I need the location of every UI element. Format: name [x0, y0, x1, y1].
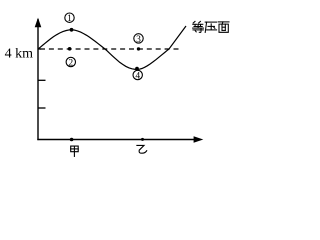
char ya	[205, 21, 216, 23]
circled 4	[133, 70, 142, 81]
circled 3	[134, 34, 143, 45]
x-axis arrowhead	[194, 136, 204, 142]
svg-text:4 km: 4 km	[5, 47, 33, 62]
x-axis	[37, 139, 196, 141]
char deng	[193, 21, 195, 23]
svg-text:4: 4	[135, 72, 140, 82]
label deng-ya-mian (isobaric surface) drawn strokes	[193, 21, 229, 32]
y-axis tick lower	[38, 107, 46, 109]
svg-text:3: 3	[136, 35, 141, 45]
y-axis tick at 4km	[38, 48, 41, 50]
svg-text:2: 2	[68, 59, 73, 69]
y-axis	[37, 19, 39, 140]
point dot 4 (curve trough)	[135, 67, 139, 71]
isobaric surface curve	[38, 26, 186, 70]
y-axis tick upper	[38, 79, 46, 81]
label jia drawn strokes	[71, 146, 79, 156]
point dot 1 (curve peak)	[70, 28, 74, 32]
point dot 3 (on dashed line)	[137, 47, 140, 50]
dashed 4km level line	[40, 48, 182, 50]
char mian	[218, 21, 229, 23]
point dot 2 (on dashed line)	[68, 47, 72, 51]
svg-text:1: 1	[67, 14, 72, 24]
dot yi on x-axis	[141, 138, 144, 141]
dot jia on x-axis	[70, 138, 74, 142]
circled 1	[65, 13, 74, 24]
y-axis arrowhead	[35, 18, 42, 28]
circled 2	[66, 57, 75, 68]
label yi drawn strokes	[137, 145, 147, 153]
